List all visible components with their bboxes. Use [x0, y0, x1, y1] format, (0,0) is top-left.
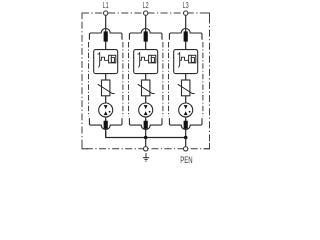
thermal disconnect fuse bottom module 3 — [184, 121, 188, 129]
wire module 3 box to varistor — [185, 74, 187, 80]
triggered spark gap U2 box — [134, 50, 158, 74]
terminal L3 — [184, 11, 188, 15]
wire module 2 varistor to bus — [145, 96, 147, 106]
svg-text:L1: L1 — [103, 0, 109, 10]
terminal PEN — [184, 147, 188, 151]
device enclosure border (dash-dot) — [82, 13, 210, 149]
junction node module 2 / earth drop — [144, 136, 148, 140]
spark gap electrode symbol U2 — [138, 52, 149, 68]
thermal disconnect fuse top module 1 — [104, 31, 108, 41]
disconnector bracket bottom module 1 — [89, 118, 122, 129]
disconnector bracket top module 3 — [169, 29, 202, 40]
terminal L2 — [144, 11, 148, 15]
wire L2 vertical — [145, 16, 147, 50]
spark gap (GDT) F3 — [179, 103, 193, 117]
svg-text:PEN: PEN — [180, 154, 192, 164]
disconnector bracket bottom module 2 — [129, 118, 162, 129]
module 1 border (dash-dot) — [89, 42, 123, 117]
wire L3 vertical — [185, 16, 187, 50]
varistor RV1 — [98, 80, 115, 96]
spark gap electrode symbol U1 — [98, 52, 109, 68]
wire drop to earth terminal — [145, 138, 147, 147]
thermal disconnect fuse top module 2 — [144, 31, 148, 41]
spark gap (GDT) F2 — [139, 103, 153, 117]
trigger unit box U1 — [109, 55, 116, 63]
wire L1 vertical — [105, 16, 107, 50]
disconnector bracket bottom module 3 — [169, 118, 202, 129]
thermal disconnect fuse bottom module 1 — [104, 121, 108, 129]
triggered spark gap U3 box — [174, 50, 198, 74]
svg-text:L3: L3 — [183, 0, 189, 10]
wire module 3 varistor to bus — [185, 96, 187, 106]
wire module 2 box to varistor — [145, 74, 147, 80]
varistor RV2 — [138, 80, 155, 96]
wire module 1 box to varistor — [105, 74, 107, 80]
trigger unit box U2 — [149, 55, 156, 63]
trigger unit box U3 — [189, 55, 196, 63]
terminal L1 — [104, 11, 108, 15]
disconnector bracket top module 1 — [89, 29, 122, 40]
wire module 1 varistor to bus — [105, 96, 107, 106]
disconnector bracket top module 2 — [129, 29, 162, 40]
module 3 border (dash-dot) — [169, 42, 203, 117]
junction node module 3 / PEN drop — [184, 136, 188, 140]
thermal disconnect fuse top module 3 — [184, 31, 188, 41]
thermal disconnect fuse bottom module 2 — [144, 121, 148, 129]
ground symbol — [143, 153, 149, 161]
varistor RV3 — [178, 80, 195, 96]
wire drop to PEN terminal — [185, 138, 187, 147]
spark gap electrode symbol U3 — [178, 52, 189, 68]
module 2 border (dash-dot) — [129, 42, 163, 117]
enclosure corner joints — [82, 13, 210, 149]
PEN bus wire — [106, 131, 186, 138]
spark gap (GDT) F1 — [99, 103, 113, 117]
triggered spark gap U1 box — [94, 50, 118, 74]
terminal earth — [144, 147, 148, 151]
svg-text:L2: L2 — [143, 0, 149, 10]
